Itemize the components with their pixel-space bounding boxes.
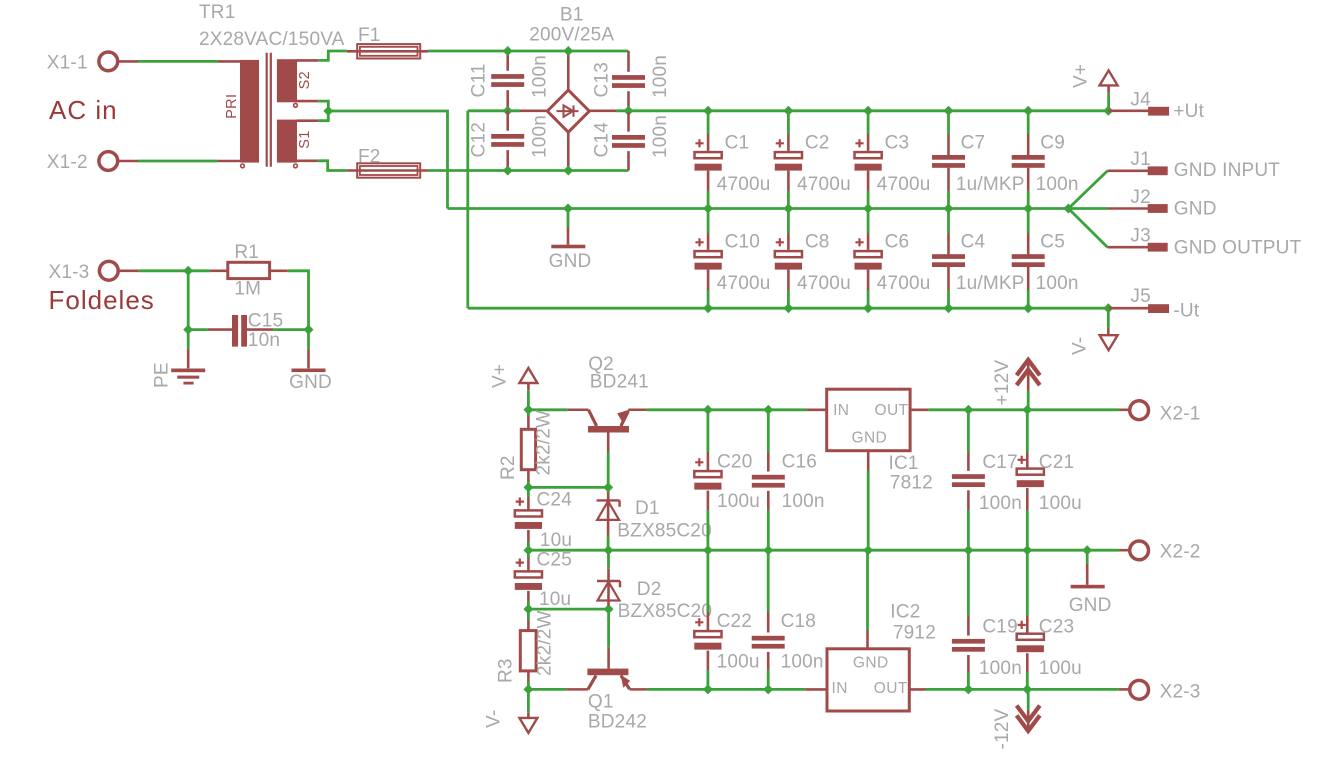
capacitor C16 xyxy=(752,475,785,488)
wire C18 bottom net xyxy=(767,670,770,689)
junction V+ node bottom xyxy=(523,405,533,415)
wire V- symbol net xyxy=(1107,308,1110,328)
wire GND X2-2 net xyxy=(1086,550,1089,564)
capacitor C4 xyxy=(932,254,965,267)
wire D2 top lead xyxy=(607,569,610,581)
wire R2 top net xyxy=(527,410,530,416)
capacitor C5 xyxy=(1012,254,1045,267)
svg-text:100u: 100u xyxy=(717,652,760,673)
junction C16-C18 mid xyxy=(763,545,773,555)
svg-text:200V/25A: 200V/25A xyxy=(529,25,614,46)
svg-text:4700u: 4700u xyxy=(717,273,771,294)
wire rail to Q2 xyxy=(528,408,567,411)
svg-text:PE: PE xyxy=(152,362,173,388)
wire C2 bottom lead xyxy=(787,191,790,209)
svg-text:PRI: PRI xyxy=(224,94,240,119)
connector X1-2 xyxy=(99,152,118,171)
svg-text:4700u: 4700u xyxy=(877,174,931,195)
wire C11 top lead xyxy=(506,51,509,71)
svg-text:GND INPUT: GND INPUT xyxy=(1174,160,1280,181)
wire J1 pin xyxy=(1108,170,1149,173)
wire J2 pin xyxy=(1108,207,1149,210)
wire F2 rail to C14 xyxy=(428,169,629,172)
svg-text:J1: J1 xyxy=(1130,149,1150,170)
junction C3 on GND rail xyxy=(863,204,873,214)
junction R2-C24 node xyxy=(523,482,533,492)
capacitor C23 xyxy=(1017,621,1044,652)
wire S2 to F1 xyxy=(318,51,347,60)
wire IC2 GND net xyxy=(866,550,869,630)
junction C8 on V- rail xyxy=(783,303,793,313)
junction C3 on V+ rail xyxy=(863,106,873,116)
wire C6 top lead xyxy=(867,209,870,234)
wire J3 pin xyxy=(1108,246,1149,249)
wire center tap to GND rail xyxy=(328,111,447,209)
fuse F2 xyxy=(357,163,420,177)
wire C23 bottom net xyxy=(1026,672,1029,689)
wire R1 right pin xyxy=(270,269,288,272)
svg-text:C25: C25 xyxy=(537,550,572,571)
junction C1 on GND rail xyxy=(703,204,713,214)
wire B1 plus pin xyxy=(589,110,616,113)
ground symbol near B1 xyxy=(551,245,585,249)
wire C20 top lead xyxy=(707,452,710,472)
svg-text:C14: C14 xyxy=(592,122,613,158)
wire B1 minus pin xyxy=(520,110,547,113)
wire C21 bottom lead xyxy=(1026,488,1029,510)
junction GND fan node xyxy=(1063,204,1073,214)
capacitor C6 xyxy=(855,238,882,269)
supply symbol V- bottom of J5 xyxy=(1100,335,1118,350)
wire Q2 base lead xyxy=(607,433,610,453)
svg-text:BZX85C20: BZX85C20 xyxy=(617,521,712,542)
wire D1 top lead xyxy=(607,493,610,501)
wire PE lead xyxy=(187,349,190,368)
wire C16 top lead xyxy=(767,452,770,472)
capacitor C24 xyxy=(515,498,542,529)
wire X1-3 node down to C15 xyxy=(187,271,190,330)
wire C7 top pin xyxy=(947,134,950,155)
supply symbol -12V xyxy=(1017,706,1040,731)
wire Q1 base net xyxy=(607,609,610,648)
wire center tap verticals xyxy=(318,101,328,121)
svg-text:7912: 7912 xyxy=(893,622,936,643)
svg-text:Foldeles: Foldeles xyxy=(49,285,155,315)
svg-text:S1: S1 xyxy=(297,130,313,148)
wire IC2 IN pin xyxy=(805,688,827,691)
junction center tap xyxy=(323,106,333,116)
svg-text:C8: C8 xyxy=(805,231,830,252)
svg-text:7812: 7812 xyxy=(890,473,933,494)
svg-text:1u/MKP: 1u/MKP xyxy=(956,273,1025,294)
svg-text:-12V: -12V xyxy=(992,708,1013,749)
capacitor C2 xyxy=(775,139,802,170)
wire C3 top pin xyxy=(867,134,870,151)
wire C2 bottom pin xyxy=(787,171,790,191)
junction C2 on V+ rail xyxy=(783,106,793,116)
wire X2-1 pin stub xyxy=(1119,408,1130,411)
svg-text:C9: C9 xyxy=(1040,132,1065,153)
wire C5 top lead xyxy=(1027,209,1030,234)
svg-text:10n: 10n xyxy=(248,330,280,351)
wire C10 bottom pin xyxy=(707,270,710,290)
capacitor C10 xyxy=(695,238,722,269)
capacitor C13 xyxy=(612,75,645,88)
wire C14 top lead xyxy=(627,111,630,132)
wire GND stub xyxy=(567,209,570,228)
wire C8 top pin xyxy=(787,233,790,250)
svg-text:IC2: IC2 xyxy=(890,601,920,622)
capacitor C9 xyxy=(1012,155,1045,168)
junction C2 on GND rail xyxy=(783,204,793,214)
wire C24 top lead xyxy=(527,497,530,511)
junction R1 left node xyxy=(183,266,193,276)
wire C14 bottom lead xyxy=(627,151,630,170)
supply symbol +12V xyxy=(1017,360,1040,385)
wire through F2 xyxy=(347,169,428,172)
wire C25 top net xyxy=(527,550,530,558)
wire C18 bottom lead xyxy=(767,652,770,670)
junction C22 bottom xyxy=(703,684,713,694)
wire S1 top pin xyxy=(297,119,318,122)
transformer TR1 secondary winding S1 xyxy=(277,120,297,163)
wire C17 bottom lead xyxy=(967,490,970,510)
wire C19 top net xyxy=(967,550,970,616)
wire C20 bottom net xyxy=(707,510,710,550)
svg-text:4700u: 4700u xyxy=(877,273,931,294)
junction C17-C19 mid xyxy=(963,545,973,555)
wire X1-3 pin stub xyxy=(118,269,138,272)
transformer TR1 core xyxy=(267,53,271,167)
wire rail Q1 to IC2 xyxy=(647,688,806,691)
wire C3 top lead xyxy=(867,111,870,134)
svg-text:GND: GND xyxy=(1069,595,1112,616)
svg-text:100n: 100n xyxy=(979,493,1022,514)
junction C17 top xyxy=(963,405,973,415)
svg-text:X2-1: X2-1 xyxy=(1160,403,1201,424)
svg-text:IC1: IC1 xyxy=(889,453,919,474)
svg-text:F1: F1 xyxy=(358,25,381,46)
wire C17 top net xyxy=(967,410,970,452)
junction C20 top xyxy=(703,405,713,415)
wire C6 bottom lead xyxy=(867,290,870,308)
svg-text:AC in: AC in xyxy=(49,95,118,125)
wire S2 top pin xyxy=(297,59,318,62)
wire C8 bottom pin xyxy=(787,270,790,290)
junction D2 bottom node xyxy=(604,604,614,614)
transistor Q2 xyxy=(567,410,647,426)
wire C8 top lead xyxy=(787,209,790,234)
svg-text:GND: GND xyxy=(853,655,889,672)
wire C2 top lead xyxy=(787,111,790,134)
wire C7 bottom pin xyxy=(947,168,950,191)
svg-text:D2: D2 xyxy=(637,579,662,600)
wire S1 to F2 xyxy=(318,161,347,171)
wire IC2 OUT rail to X2-3 xyxy=(926,688,1119,691)
wire C25 top lead xyxy=(527,558,530,572)
wire TR1 primary bottom pin xyxy=(218,160,240,163)
wire C22 top lead xyxy=(707,612,710,632)
connector pad J2 xyxy=(1148,204,1168,213)
svg-text:Q1: Q1 xyxy=(588,691,614,712)
wire R3 bottom net xyxy=(527,681,530,689)
wire D1 bottom net xyxy=(607,535,610,550)
wire R2 bottom lead xyxy=(527,470,530,481)
wire C21 bottom net xyxy=(1026,510,1029,550)
junction D1-D2 node xyxy=(603,545,613,555)
junction C13-C14 node on V+ rail xyxy=(624,106,634,116)
svg-text:D1: D1 xyxy=(635,498,660,519)
svg-text:C1: C1 xyxy=(725,132,750,153)
junction C20-C22 mid xyxy=(703,545,713,555)
wire X1-1 pin stub xyxy=(118,60,139,63)
svg-text:S2: S2 xyxy=(297,71,313,89)
junction C12 on F2 rail xyxy=(503,166,513,176)
wire rail to Q1 xyxy=(528,688,566,691)
svg-text:100n: 100n xyxy=(781,652,824,673)
junction J5 node xyxy=(1103,303,1113,313)
svg-text:R2: R2 xyxy=(498,455,519,480)
wire C13 top lead xyxy=(627,51,630,72)
svg-text:10u: 10u xyxy=(539,589,571,610)
svg-text:V-: V- xyxy=(484,710,505,728)
capacitor C1 xyxy=(695,139,722,170)
wire S2 bottom pin xyxy=(297,100,318,103)
svg-text:C19: C19 xyxy=(982,617,1017,638)
svg-text:X2-3: X2-3 xyxy=(1160,681,1201,702)
supply symbol V+ top xyxy=(1100,70,1118,85)
wire R2 top lead xyxy=(527,416,530,429)
wire C3 bottom lead xyxy=(867,191,870,209)
wire net X1-2 to TR1 xyxy=(138,160,218,163)
wire IC1 OUT pin xyxy=(910,408,928,411)
ground symbol Foldeles xyxy=(292,369,326,373)
wire GND X2-2 lead xyxy=(1086,564,1089,585)
svg-text:GND: GND xyxy=(1174,199,1217,220)
wire D2 bottom lead xyxy=(607,581,610,606)
wire C20 top net xyxy=(707,410,710,452)
transformer TR1 primary winding xyxy=(240,60,259,163)
wire C6 bottom pin xyxy=(867,270,870,290)
wire C4 bottom pin xyxy=(947,267,950,290)
junction C23 bottom xyxy=(1022,684,1032,694)
pin dot TR1 S1 bottom xyxy=(294,164,298,168)
wire C18 top net xyxy=(767,550,770,612)
wire C13 bottom lead xyxy=(627,91,630,111)
junction C21-C23 mid xyxy=(1022,545,1032,555)
wire C10 top lead xyxy=(707,209,710,234)
junction C25-R3 node xyxy=(523,604,533,614)
wire C1 top lead xyxy=(707,111,710,134)
wire fan to J2 xyxy=(1068,207,1107,210)
wire C22 bottom net xyxy=(707,670,710,689)
transistor Q1 xyxy=(566,675,647,689)
svg-text:V+: V+ xyxy=(1071,64,1092,88)
svg-text:C12: C12 xyxy=(469,122,490,157)
resistor R1 xyxy=(228,262,270,278)
bridge B1 internal diode xyxy=(557,105,579,116)
zener diode D1 xyxy=(597,500,620,520)
svg-text:R3: R3 xyxy=(496,658,517,683)
wire Q1 base lead xyxy=(607,648,610,669)
junction C9 on GND rail xyxy=(1023,204,1033,214)
svg-text:C10: C10 xyxy=(725,231,760,252)
resistor R2 xyxy=(521,429,535,469)
wire R3 top net xyxy=(527,609,530,620)
svg-text:10u: 10u xyxy=(540,530,572,551)
svg-text:BD241: BD241 xyxy=(590,372,649,393)
svg-text:C20: C20 xyxy=(717,452,752,473)
svg-text:C2: C2 xyxy=(805,132,830,153)
svg-text:100n: 100n xyxy=(1036,273,1079,294)
wire D1 bottom lead xyxy=(607,500,610,535)
svg-text:GND OUTPUT: GND OUTPUT xyxy=(1174,238,1302,259)
wire C17 bottom net xyxy=(967,510,970,550)
wire F1 rail to C13 xyxy=(428,50,629,53)
wire +12V to rail xyxy=(1027,391,1030,410)
wire J4 pin xyxy=(1108,110,1149,113)
wire C1 bottom pin xyxy=(707,171,710,191)
wire C9 top lead xyxy=(1027,111,1030,134)
wire C1 bottom lead xyxy=(707,191,710,209)
junction GND X2-2 node xyxy=(1082,545,1092,555)
svg-text:100u: 100u xyxy=(1039,493,1082,514)
wire B1 AC2 pin down to F2 rail xyxy=(567,132,570,170)
wire V+ symbol to rail xyxy=(1107,93,1110,111)
capacitor C3 xyxy=(855,139,882,170)
ground symbol near X2-2 xyxy=(1071,585,1105,589)
svg-text:C21: C21 xyxy=(1039,452,1074,473)
wire V- net down xyxy=(527,689,530,712)
wire C15 right net xyxy=(273,328,308,331)
svg-text:2X28VAC/150VA: 2X28VAC/150VA xyxy=(199,29,345,50)
wire TR1 primary top pin xyxy=(218,60,240,63)
wire C22 top net xyxy=(707,550,710,612)
svg-text:GND: GND xyxy=(852,430,888,447)
svg-text:J5: J5 xyxy=(1130,286,1150,307)
junction C24-C25 node xyxy=(523,545,533,555)
connector pad J1 xyxy=(1148,166,1168,175)
svg-text:X2-2: X2-2 xyxy=(1160,542,1201,563)
wire J5 pin xyxy=(1108,307,1149,310)
wire C3 bottom pin xyxy=(867,171,870,191)
fuse F1 xyxy=(357,44,420,58)
wire C9 top pin xyxy=(1027,134,1030,155)
junction C1 on V+ rail xyxy=(703,106,713,116)
wire GND symbol lead xyxy=(567,228,570,245)
wire C16 bottom net xyxy=(767,510,770,550)
svg-text:C22: C22 xyxy=(717,611,752,632)
svg-text:C5: C5 xyxy=(1040,231,1065,252)
wire C25 node to D2 node xyxy=(528,608,608,611)
junction C4 on V- rail xyxy=(944,303,954,313)
wire D2 top net xyxy=(607,550,610,569)
svg-text:C7: C7 xyxy=(961,132,986,153)
resistor R3 xyxy=(520,631,536,671)
svg-text:1M: 1M xyxy=(234,279,261,300)
junction C10 on V- rail xyxy=(703,303,713,313)
wire C23 bottom lead xyxy=(1026,653,1029,672)
wire X2-2 pin stub xyxy=(1119,549,1130,552)
wire IC2 OUT pin xyxy=(909,688,925,691)
wire C23 top lead xyxy=(1026,616,1029,634)
svg-text:X1-2: X1-2 xyxy=(47,152,88,173)
capacitor C8 xyxy=(775,238,802,269)
wire V+ to rail xyxy=(527,390,530,410)
svg-text:100u: 100u xyxy=(717,491,760,512)
wire to R1 xyxy=(188,269,210,272)
wire C6 top pin xyxy=(867,233,870,250)
capacitor C14 xyxy=(612,135,645,148)
svg-text:C18: C18 xyxy=(781,611,816,632)
wire C19 bottom lead xyxy=(967,655,970,672)
wire through F1 xyxy=(347,50,428,53)
svg-text:BZX85C20: BZX85C20 xyxy=(618,601,713,622)
junction C19 bottom xyxy=(963,684,973,694)
capacitor C17 xyxy=(952,474,985,487)
svg-text:J3: J3 xyxy=(1130,226,1150,247)
svg-text:GND: GND xyxy=(289,372,332,393)
wire X2-3 pin stub xyxy=(1119,688,1130,691)
wire V+ stub xyxy=(527,383,530,390)
svg-text:C3: C3 xyxy=(885,132,910,153)
svg-text:B1: B1 xyxy=(560,5,584,26)
capacitor C18 xyxy=(752,636,785,649)
svg-text:C17: C17 xyxy=(982,452,1017,473)
connector pad J5 xyxy=(1148,304,1169,313)
junction C18 bottom xyxy=(763,684,773,694)
junction IC GND mid rail xyxy=(863,545,873,555)
wire C12 bottom lead xyxy=(506,150,509,170)
wire C24 top net xyxy=(527,487,530,497)
connector X1-3 xyxy=(99,261,118,280)
wire C18 top lead xyxy=(767,612,770,633)
wire C23 top net xyxy=(1026,550,1029,616)
capacitor C21 xyxy=(1017,456,1044,487)
connector X1-1 xyxy=(99,52,118,71)
wire C10 top pin xyxy=(707,233,710,250)
wire net X1-1 to TR1 xyxy=(138,60,218,63)
wire C17 top lead xyxy=(967,452,970,471)
wire rail Q2 to IC1 xyxy=(647,408,807,411)
wire C21 top lead xyxy=(1026,452,1029,469)
svg-text:4700u: 4700u xyxy=(797,174,851,195)
wire R2 node to D1 node xyxy=(528,486,608,489)
junction J4 node xyxy=(1103,106,1113,116)
svg-text:2k2/2W: 2k2/2W xyxy=(535,610,556,676)
svg-text:100n: 100n xyxy=(650,55,671,98)
svg-text:TR1: TR1 xyxy=(199,2,236,23)
wire C24 bottom net xyxy=(527,542,530,550)
wire IC1 GND pin xyxy=(867,451,870,471)
svg-text:GND: GND xyxy=(549,251,592,272)
wire X1-2 pin stub xyxy=(118,160,139,163)
wire R2 bottom net xyxy=(527,481,530,487)
wire C16 bottom lead xyxy=(767,491,770,510)
wire GND lead xyxy=(307,349,310,368)
svg-text:J2: J2 xyxy=(1130,187,1150,208)
svg-text:IN: IN xyxy=(832,680,848,697)
supply symbol V+ bottom section xyxy=(519,368,537,383)
wire C4 top pin xyxy=(947,233,950,254)
svg-text:+Ut: +Ut xyxy=(1173,101,1204,122)
wire C12 top lead xyxy=(506,111,509,131)
wire C15 left pin xyxy=(208,328,232,331)
wire Q2 base net xyxy=(607,452,610,487)
wire R1 right to C15 right xyxy=(288,271,309,330)
wire S1 bottom pin xyxy=(297,160,318,163)
junction C9 on V+ rail xyxy=(1023,106,1033,116)
